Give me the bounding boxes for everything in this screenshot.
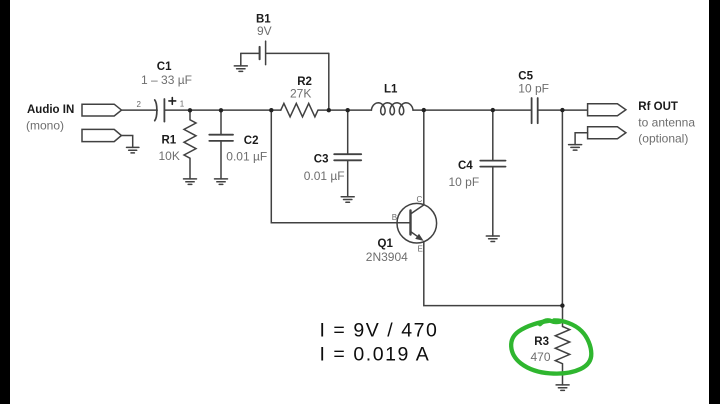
wire B1 to rail bbox=[328, 53, 330, 110]
node C3 junction bbox=[346, 108, 350, 112]
node C2 junction bbox=[219, 108, 223, 112]
capacitor C1 (polarized) bbox=[155, 99, 165, 122]
svg-text:0.01 µF: 0.01 µF bbox=[304, 169, 345, 183]
wire base feed from rail node bbox=[271, 110, 410, 223]
left letterbox bar bbox=[0, 0, 10, 404]
node C5 output junction bbox=[560, 108, 564, 112]
wire R2 right to L1 bbox=[318, 109, 371, 111]
ground audio input bbox=[127, 147, 139, 153]
svg-text:1: 1 bbox=[180, 99, 185, 108]
svg-text:C2: C2 bbox=[244, 135, 259, 147]
connector J1 Audio IN tip bbox=[82, 104, 122, 116]
svg-text:0.01 µF: 0.01 µF bbox=[226, 149, 267, 163]
ground C3 bbox=[341, 197, 354, 203]
node collector junction bbox=[422, 108, 426, 112]
battery B1 bbox=[241, 41, 329, 65]
connector J2 Rf OUT sleeve bbox=[588, 127, 626, 139]
svg-text:2N3904: 2N3904 bbox=[366, 250, 408, 264]
svg-text:10 pF: 10 pF bbox=[449, 175, 480, 189]
svg-text:C3: C3 bbox=[314, 154, 329, 166]
resistor R3 bbox=[555, 306, 569, 385]
resistor R1 bbox=[184, 110, 196, 179]
svg-text:to antenna: to antenna bbox=[638, 115, 695, 129]
wire sleeve to ground bbox=[121, 136, 132, 148]
svg-text:27K: 27K bbox=[290, 87, 311, 101]
wire B1 negative to ground bbox=[240, 53, 242, 66]
wire C5 to Rf OUT connector bbox=[538, 109, 587, 111]
wire C1 to R1 node bbox=[164, 109, 280, 111]
capacitor C5 bbox=[532, 98, 538, 123]
node emitter R3 junction bbox=[560, 303, 564, 307]
resistor R2 bbox=[281, 103, 318, 116]
ground R1 bbox=[184, 179, 197, 185]
capacitor C2 bbox=[209, 110, 233, 179]
svg-text:(optional): (optional) bbox=[638, 132, 688, 146]
transistor Q1 circle bbox=[397, 203, 437, 243]
ground Rf OUT bbox=[569, 145, 582, 151]
transistor Q1 base bar bbox=[409, 211, 411, 235]
svg-text:Rf OUT: Rf OUT bbox=[638, 101, 678, 113]
capacitor C3 bbox=[334, 110, 361, 197]
svg-text:E: E bbox=[418, 244, 423, 253]
wire L1 to C5 bbox=[413, 109, 531, 111]
transistor Q1 collector stroke bbox=[411, 205, 424, 214]
wire Rf sleeve to ground bbox=[575, 133, 588, 145]
connector J2 Rf OUT tip bbox=[588, 104, 626, 116]
transistor Q1 emitter stroke bbox=[411, 232, 419, 237]
wire emitter down and right bbox=[424, 242, 563, 306]
svg-text:R3: R3 bbox=[534, 336, 549, 348]
svg-text:10K: 10K bbox=[159, 149, 180, 163]
svg-text:I = 0.019 A: I = 0.019 A bbox=[320, 343, 431, 365]
svg-text:B: B bbox=[392, 213, 397, 222]
green highlight loop around R3 bbox=[511, 320, 591, 373]
transistor Q1 emitter arrow bbox=[415, 234, 423, 241]
svg-text:(mono): (mono) bbox=[26, 119, 64, 133]
capacitor C4 bbox=[480, 110, 505, 236]
svg-text:R1: R1 bbox=[162, 134, 177, 146]
right letterbox bar bbox=[709, 0, 720, 404]
node base feed junction bbox=[269, 108, 273, 112]
ground R3 bbox=[556, 385, 569, 391]
wire C5 node down to emitter node bbox=[561, 110, 563, 306]
svg-text:Q1: Q1 bbox=[378, 238, 394, 250]
svg-text:10 pF: 10 pF bbox=[518, 82, 549, 96]
svg-text:2: 2 bbox=[137, 100, 142, 109]
inductor L1 bbox=[371, 103, 413, 115]
ground B1 bbox=[234, 66, 247, 72]
node R1/C1 junction bbox=[188, 108, 192, 112]
wire collector to rail bbox=[423, 110, 425, 205]
node C4 junction bbox=[491, 108, 495, 112]
svg-text:C1: C1 bbox=[157, 61, 172, 73]
svg-text:1 – 33 µF: 1 – 33 µF bbox=[141, 73, 192, 87]
svg-text:C: C bbox=[417, 195, 423, 204]
ground C2 bbox=[215, 179, 228, 185]
node B1 junction bbox=[327, 108, 331, 112]
svg-text:470: 470 bbox=[531, 350, 551, 364]
C1 plus sign bbox=[169, 98, 176, 105]
svg-text:I = 9V / 470: I = 9V / 470 bbox=[320, 320, 439, 342]
svg-text:L1: L1 bbox=[384, 84, 398, 96]
ground C4 bbox=[486, 236, 499, 242]
wire main rail left segment bbox=[122, 109, 158, 111]
svg-text:Audio IN: Audio IN bbox=[27, 104, 74, 116]
svg-text:9V: 9V bbox=[257, 24, 272, 38]
connector J1 Audio IN sleeve bbox=[82, 129, 121, 141]
svg-text:C4: C4 bbox=[458, 160, 473, 172]
